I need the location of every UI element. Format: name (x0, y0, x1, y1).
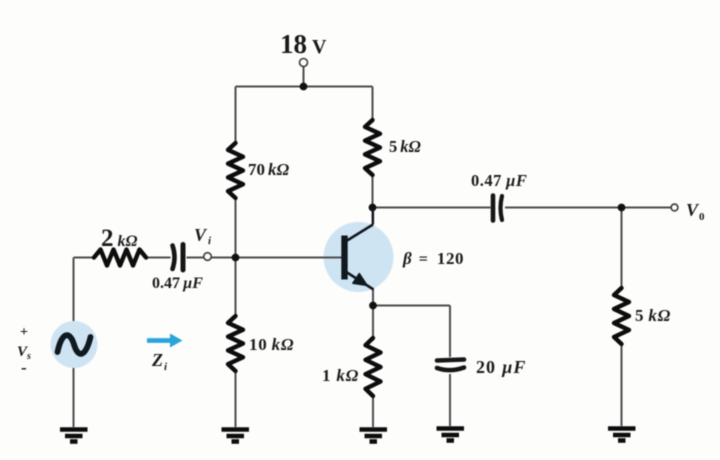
transistor Q1 emitter arrow (353, 274, 367, 286)
svg-text:β=120: β=120 (402, 249, 464, 268)
svg-text:18V: 18V (280, 29, 327, 59)
svg-text:-: - (21, 358, 27, 377)
ground (load) (608, 429, 636, 441)
resistor RL 5k load (614, 288, 629, 344)
wire: collector branch vertical (372, 87, 374, 225)
resistor R2 5k collector (365, 120, 380, 175)
resistor Rs 2k source (94, 250, 146, 266)
svg-text:10kΩ: 10kΩ (249, 335, 294, 354)
label Zi with arrow (147, 338, 173, 343)
node: Vcc junction dot (300, 83, 308, 91)
node: emitter junction dot (369, 302, 377, 310)
node: Vo terminal circle (671, 204, 678, 211)
resistor RE 1k (366, 338, 381, 396)
wire: Vcc stub (303, 67, 305, 87)
svg-text:20µF: 20µF (476, 357, 526, 377)
svg-text:Zi: Zi (151, 350, 168, 373)
resistor R1 70k (228, 143, 243, 198)
wire: emitter down + rail to bypass cap (373, 289, 450, 427)
svg-text:5kΩ: 5kΩ (635, 306, 671, 325)
ground (source) (60, 430, 88, 442)
wire: top rail from R1 top to R2 top (74, 67, 672, 428)
wire: collector output rail to Vo (373, 207, 672, 209)
transistor Q1 highlight circle (324, 222, 394, 292)
svg-text:70kΩ: 70kΩ (248, 160, 290, 179)
transistor Q1 symbol (345, 208, 374, 290)
wire: source branch (73, 258, 75, 428)
ground (bypass cap) (437, 429, 465, 441)
node: output junction dot (618, 204, 626, 212)
capacitor C1 input 0.47uF plates (173, 245, 184, 271)
svg-text:2kΩ: 2kΩ (101, 225, 138, 252)
wire: base rail (74, 257, 342, 259)
wire: left bias branch (70k/10k column) (235, 87, 237, 428)
ground (bias column) (222, 430, 250, 442)
node: collector junction dot (369, 204, 377, 212)
wire: output load branch (621, 208, 623, 427)
node: base junction dot (232, 254, 240, 262)
Vcc terminal circle (300, 59, 308, 67)
ground (emitter resistor) (360, 430, 388, 442)
svg-text:1kΩ: 1kΩ (322, 366, 359, 385)
svg-text:+: + (20, 325, 28, 340)
svg-text:0.47µF: 0.47µF (152, 275, 203, 292)
capacitor CE bypass 20uF plates (437, 360, 464, 371)
node: Vi terminal circle (204, 253, 212, 261)
svg-text:Vi: Vi (194, 225, 212, 247)
svg-text:V0: V0 (686, 200, 705, 223)
svg-text:0.47µF: 0.47µF (471, 171, 527, 190)
resistor R3 10k (228, 316, 243, 371)
source VS sine wave (58, 335, 91, 354)
capacitor C2 output 0.47uF plates (493, 196, 502, 221)
source VS highlight circle (51, 321, 98, 368)
svg-text:5kΩ: 5kΩ (389, 137, 422, 156)
